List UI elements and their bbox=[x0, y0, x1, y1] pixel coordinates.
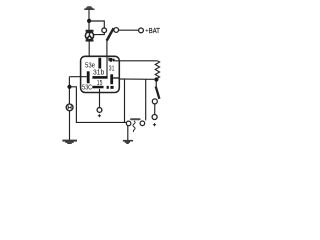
terminal plus 15 bbox=[97, 108, 102, 113]
park contact circle bbox=[102, 28, 107, 33]
motor M2 (pump symbol) bbox=[66, 104, 73, 111]
ground (bottom left) bbox=[62, 140, 77, 144]
terminal bar 53C bbox=[87, 71, 90, 83]
switch S3 contact bottom bbox=[152, 115, 157, 120]
terminal blob top middle bbox=[110, 58, 113, 62]
resistor R1 bbox=[155, 61, 159, 81]
wire motor to relay 53e bbox=[88, 41, 90, 56]
wire motor brush tap to park contact bbox=[94, 33, 105, 35]
switch S3 blade bbox=[156, 86, 160, 98]
wire 31 bar out right bbox=[119, 78, 155, 80]
relay U1 box bbox=[81, 56, 120, 92]
svg-text:BAT: BAT bbox=[149, 28, 161, 35]
node junction A bbox=[87, 19, 91, 23]
svg-text:15: 15 bbox=[97, 78, 103, 87]
switch S1 contact to BAT bbox=[114, 28, 119, 33]
terminal tick thin top middle bbox=[108, 58, 109, 61]
terminal bar 31b bbox=[92, 76, 107, 79]
label plus 15 bbox=[98, 115, 101, 117]
wire pump to ground bbox=[69, 111, 71, 140]
terminal bar 31 bbox=[110, 74, 113, 84]
switch S3 contact top bbox=[152, 99, 157, 104]
wire left contact to ground bbox=[127, 126, 129, 141]
wire left column vertical bbox=[68, 77, 70, 105]
terminal bar 15 bbox=[92, 86, 103, 89]
pushbutton S2 bridge bbox=[130, 118, 141, 120]
ground (bottom middle) bbox=[123, 140, 133, 144]
wire ground to junction bbox=[88, 10, 90, 30]
label plus S3 bbox=[153, 124, 156, 126]
pushbutton actuator squiggle bbox=[133, 121, 135, 132]
terminal arm top middle bbox=[112, 59, 114, 61]
svg-text:31b: 31b bbox=[93, 68, 104, 77]
svg-text:53C: 53C bbox=[82, 82, 92, 91]
terminal tick mid lower bbox=[107, 86, 109, 89]
wire 15 to plus terminal bbox=[99, 89, 101, 108]
ground (top chassis earth) bbox=[84, 6, 94, 9]
wire 31 out right top bbox=[113, 60, 157, 62]
node junction C bbox=[154, 77, 158, 81]
motor M1 (wiper motor symbol) bbox=[85, 31, 93, 41]
pushbutton S2 contact right bbox=[140, 121, 145, 126]
pushbutton S2 contact left bbox=[126, 121, 131, 126]
svg-text:31: 31 bbox=[109, 63, 115, 72]
wire junction B under relay to pushbutton bbox=[70, 87, 127, 123]
switch S1 blade bbox=[107, 28, 114, 40]
wire blade pivot to relay top bbox=[106, 40, 108, 56]
wire between S3 contacts bbox=[154, 104, 156, 114]
wire junction C down bbox=[155, 81, 157, 86]
wire feed down to pushbutton bbox=[124, 79, 126, 123]
wire 53C to left column bbox=[69, 76, 86, 78]
arm bar 31 to box edge bbox=[113, 77, 119, 79]
wire pushbutton right to net 31 bbox=[145, 79, 147, 120]
terminal bar 53e bbox=[98, 58, 101, 69]
terminal +BAT bbox=[139, 28, 144, 33]
wire inside top middle bbox=[106, 57, 108, 77]
node junction B bbox=[67, 85, 71, 89]
wire junction to park contact bbox=[89, 21, 104, 28]
wire S1 to +BAT bbox=[119, 29, 139, 31]
